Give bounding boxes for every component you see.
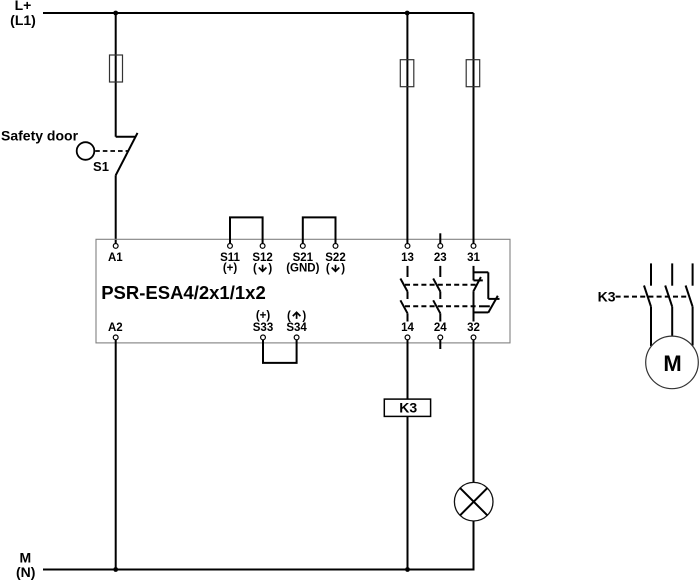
contact 13-14 (two NO contacts in series) bbox=[400, 266, 407, 322]
node junction dot A2 at rail bbox=[113, 567, 118, 572]
node M (N) label bbox=[16, 550, 35, 580]
svg-text:): ) bbox=[341, 263, 345, 275]
svg-text:): ) bbox=[302, 310, 306, 322]
svg-text:14: 14 bbox=[401, 322, 414, 334]
svg-text:(+): (+) bbox=[256, 310, 271, 322]
svg-text:S1: S1 bbox=[93, 159, 109, 174]
wire dashed linkage row 1 bbox=[405, 284, 477, 286]
svg-text:): ) bbox=[268, 263, 272, 275]
wire from lamp down to bottom rail bbox=[473, 521, 475, 570]
wire dashed linkage K3 contactor bbox=[616, 296, 689, 298]
terminal S11 bbox=[228, 244, 233, 249]
switch S1 contact (door position switch) bbox=[116, 133, 138, 175]
svg-text:K3: K3 bbox=[598, 288, 616, 304]
wire stub below terminal 24 bbox=[439, 340, 441, 349]
fuse F2 bbox=[400, 60, 414, 87]
contactor pole 2 bbox=[665, 263, 672, 336]
svg-text:24: 24 bbox=[434, 322, 447, 334]
wire from A2 down to bottom rail bbox=[115, 340, 117, 570]
terminal S33 bbox=[261, 335, 266, 340]
svg-text:(: ( bbox=[287, 310, 291, 322]
terminal 32 bbox=[471, 335, 476, 340]
wire top supply rail L+ bbox=[43, 12, 474, 14]
terminal A2 bbox=[113, 335, 118, 340]
wire from 32 down to lamp bbox=[473, 340, 475, 483]
svg-text:(+): (+) bbox=[223, 263, 238, 275]
node junction dot on rail at S1 branch bbox=[113, 11, 118, 16]
wire jumper S33-S34 bbox=[263, 340, 297, 363]
wire bottom return rail M bbox=[43, 568, 474, 570]
wire jumper S11-S12 bbox=[230, 217, 263, 243]
node junction dot on rail at 13 branch bbox=[405, 11, 410, 16]
terminal S21 bbox=[300, 244, 305, 249]
wire from 14 down through coil K3 to bottom rail bbox=[407, 340, 409, 570]
wire dashed linkage row 2 bbox=[405, 305, 477, 307]
terminal S22 bbox=[333, 244, 338, 249]
svg-text:23: 23 bbox=[434, 252, 447, 264]
svg-text:(N): (N) bbox=[16, 564, 35, 580]
terminal 23 bbox=[438, 244, 443, 249]
contactor pole 3 bbox=[686, 263, 693, 345]
svg-text:13: 13 bbox=[401, 252, 414, 264]
wire stub above terminal 23 bbox=[439, 233, 441, 243]
wire jumper S21-S22 bbox=[303, 217, 336, 243]
relay module PSR-ESA4 outline bbox=[96, 239, 510, 343]
terminal S34 bbox=[294, 335, 299, 340]
svg-text:K3: K3 bbox=[399, 399, 417, 415]
relay coil K3 bbox=[384, 399, 430, 416]
svg-text:A1: A1 bbox=[108, 252, 123, 264]
terminal 31 bbox=[471, 244, 476, 249]
svg-text:(L1): (L1) bbox=[10, 12, 36, 28]
node L+ (L1) label bbox=[10, 0, 36, 28]
contact 31-32 (two NC forcibly-guided contacts) bbox=[473, 266, 499, 322]
terminal 13 bbox=[405, 244, 410, 249]
svg-text:31: 31 bbox=[467, 252, 480, 264]
wire from rail corner through fuse F3 to terminal 31 bbox=[473, 13, 475, 243]
lamp H1 bbox=[454, 482, 493, 521]
svg-text:(: ( bbox=[326, 263, 330, 275]
wire from rail through fuse F2 to terminal 13 bbox=[406, 13, 408, 243]
svg-text:S34: S34 bbox=[286, 322, 307, 334]
node junction dot K3 at rail bbox=[405, 567, 410, 572]
svg-text:32: 32 bbox=[467, 322, 480, 334]
svg-text:S33: S33 bbox=[253, 322, 273, 334]
wire from S1 down to terminal A1 bbox=[115, 175, 117, 243]
wire from rail down to fuse F1 and switch S1 bbox=[115, 13, 117, 137]
svg-text:A2: A2 bbox=[108, 322, 123, 334]
terminal S12 bbox=[260, 244, 265, 249]
contactor pole 1 bbox=[644, 263, 651, 346]
svg-text:M: M bbox=[663, 351, 681, 376]
svg-text:PSR-ESA4/2x1/1x2: PSR-ESA4/2x1/1x2 bbox=[101, 282, 266, 303]
switch S1 actuator circle bbox=[77, 142, 95, 160]
svg-text:Safety door: Safety door bbox=[1, 128, 79, 144]
fuse F1 bbox=[110, 55, 123, 82]
svg-text:(GND): (GND) bbox=[286, 263, 319, 275]
motor M bbox=[646, 336, 699, 389]
terminal 24 bbox=[438, 335, 443, 340]
fuse F3 bbox=[466, 60, 480, 87]
terminal A1 bbox=[113, 244, 118, 249]
terminal 14 bbox=[405, 335, 410, 340]
svg-text:(: ( bbox=[253, 263, 257, 275]
contact 23-24 (two NO contacts in series) bbox=[433, 266, 440, 322]
wire dashed mechanical link S1 bbox=[95, 150, 128, 152]
